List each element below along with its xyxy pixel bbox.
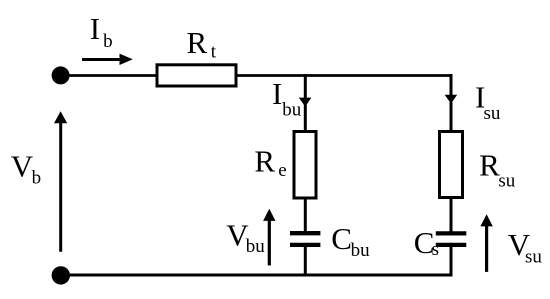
current arrow I_b [82,54,133,65]
label C_s [414,225,439,260]
wire right branch between R_su and C_s [450,199,453,233]
resistor R_t [157,65,236,86]
terminal dot bottom-left [52,266,70,284]
wire top-right segment [236,74,452,77]
svg-text:b: b [32,168,41,189]
svg-text:V: V [11,149,34,184]
svg-text:R: R [254,143,275,178]
label V_su [508,227,543,268]
svg-text:s: s [432,239,439,260]
wire bottom [61,274,453,277]
wire top-left segment [61,74,158,77]
svg-text:bu: bu [246,236,265,257]
terminal dot top-left [52,66,70,84]
label R_e [254,143,286,181]
resistor R_su [440,132,463,198]
label R_t [187,25,217,63]
svg-text:su: su [484,103,501,124]
label I_bu [272,76,302,120]
voltage arrow V_b [54,111,67,252]
wire middle branch lower [304,245,307,275]
wire right branch upper [450,74,453,131]
label I_su [475,79,501,124]
svg-text:bu: bu [282,99,302,120]
svg-text:bu: bu [351,240,371,261]
capacitor C_s [436,233,467,245]
svg-text:su: su [525,247,542,268]
current arrowhead I_su [445,95,458,104]
voltage arrow V_su [480,214,492,272]
svg-text:R: R [479,148,500,183]
label C_bu [331,221,370,261]
label I_b [90,11,113,52]
wire middle branch upper [304,74,307,131]
svg-text:I: I [272,76,282,111]
label R_su [479,148,516,192]
capacitor C_bu [290,233,320,245]
label V_bu [226,217,265,257]
svg-text:C: C [331,221,352,256]
svg-text:su: su [498,171,515,192]
current arrowhead I_bu [299,98,312,107]
svg-text:e: e [278,160,286,181]
wire middle branch between R_e and C_bu [304,199,307,233]
svg-text:R: R [187,25,208,60]
wire right branch lower [450,245,453,276]
svg-text:I: I [90,11,100,46]
resistor R_e [294,132,316,199]
svg-text:b: b [103,31,113,52]
label V_b [11,149,41,189]
voltage arrow V_bu [263,209,275,266]
svg-text:t: t [211,42,217,63]
